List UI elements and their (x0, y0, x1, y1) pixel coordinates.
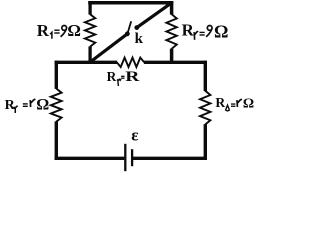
wire bottom rail right (133, 157, 207, 160)
svg-text:R: R (5, 98, 16, 113)
wire R2 bottom stub (170, 49, 174, 64)
battery short plate (131, 149, 133, 166)
wire middle rail left (55, 61, 118, 64)
wire right vertical lower (204, 124, 207, 160)
svg-text:Ω: Ω (36, 96, 49, 114)
svg-text:R: R (107, 69, 117, 84)
svg-text:Ω: Ω (243, 97, 254, 112)
wire top rail (88, 1, 173, 5)
svg-text:Ω: Ω (214, 22, 228, 42)
svg-text:R: R (182, 21, 195, 40)
label R2 (182, 21, 229, 42)
wire left vertical upper (55, 61, 58, 89)
svg-text:R: R (125, 69, 140, 85)
switch k lever (127, 21, 131, 34)
wire R2 top stub (170, 1, 174, 15)
resistor R4 (51, 89, 62, 122)
label R1 (37, 21, 81, 40)
resistor R3 (117, 58, 144, 67)
wire R1 top stub (88, 1, 91, 15)
label R3 (107, 69, 140, 86)
switch k contact dot (134, 25, 139, 30)
svg-text:R: R (37, 21, 50, 40)
svg-text:Ω: Ω (67, 21, 81, 40)
wire middle rail right (144, 61, 207, 64)
switch k upper diagonal (137, 2, 173, 27)
wire left vertical lower (55, 121, 58, 160)
wire R1 bottom stub (88, 46, 91, 63)
resistor R1 (85, 14, 95, 46)
resistor R5 (200, 91, 210, 125)
label R4 (5, 96, 50, 114)
resistor R2 (166, 14, 176, 49)
wire bottom rail left (55, 157, 125, 160)
switch k lower diagonal (89, 34, 127, 63)
switch k pivot dot (125, 31, 130, 36)
svg-text:R: R (215, 95, 225, 110)
label R5 (215, 95, 254, 112)
battery long plate (124, 144, 126, 171)
svg-text:k: k (135, 31, 144, 47)
wire right vertical upper (204, 61, 207, 91)
svg-text:ε: ε (131, 126, 138, 145)
